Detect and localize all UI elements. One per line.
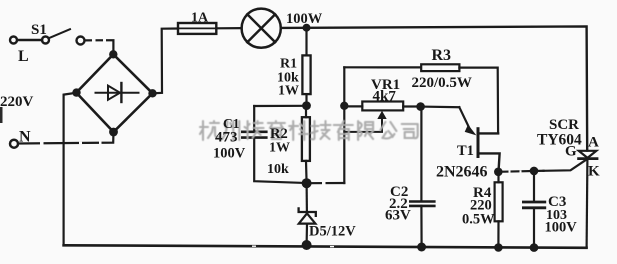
svg-text:L: L: [18, 48, 29, 65]
svg-text:2N2646: 2N2646: [436, 164, 488, 181]
svg-text:220V: 220V: [0, 94, 34, 110]
svg-text:1W: 1W: [278, 84, 299, 99]
svg-text:T1: T1: [457, 143, 474, 159]
svg-text:100V: 100V: [213, 146, 246, 162]
svg-text:4k7: 4k7: [373, 89, 397, 105]
svg-text:10k: 10k: [267, 162, 289, 177]
svg-text:D5/12V: D5/12V: [309, 224, 356, 240]
svg-text:R3: R3: [432, 47, 452, 64]
svg-text:220/0.5W: 220/0.5W: [412, 75, 472, 91]
svg-text:63V: 63V: [385, 208, 411, 224]
svg-text:1W: 1W: [269, 141, 290, 156]
svg-text:K: K: [588, 164, 600, 180]
svg-text:1A: 1A: [191, 11, 209, 26]
svg-text:S1: S1: [31, 22, 47, 38]
svg-text:R1: R1: [280, 57, 297, 72]
svg-text:100V: 100V: [545, 220, 578, 236]
svg-text:0.5W: 0.5W: [462, 212, 495, 228]
svg-text:473: 473: [215, 130, 238, 146]
svg-text:A: A: [588, 135, 599, 151]
svg-text:100W: 100W: [286, 11, 323, 27]
svg-text:N: N: [19, 129, 31, 146]
svg-text:G: G: [565, 144, 577, 160]
